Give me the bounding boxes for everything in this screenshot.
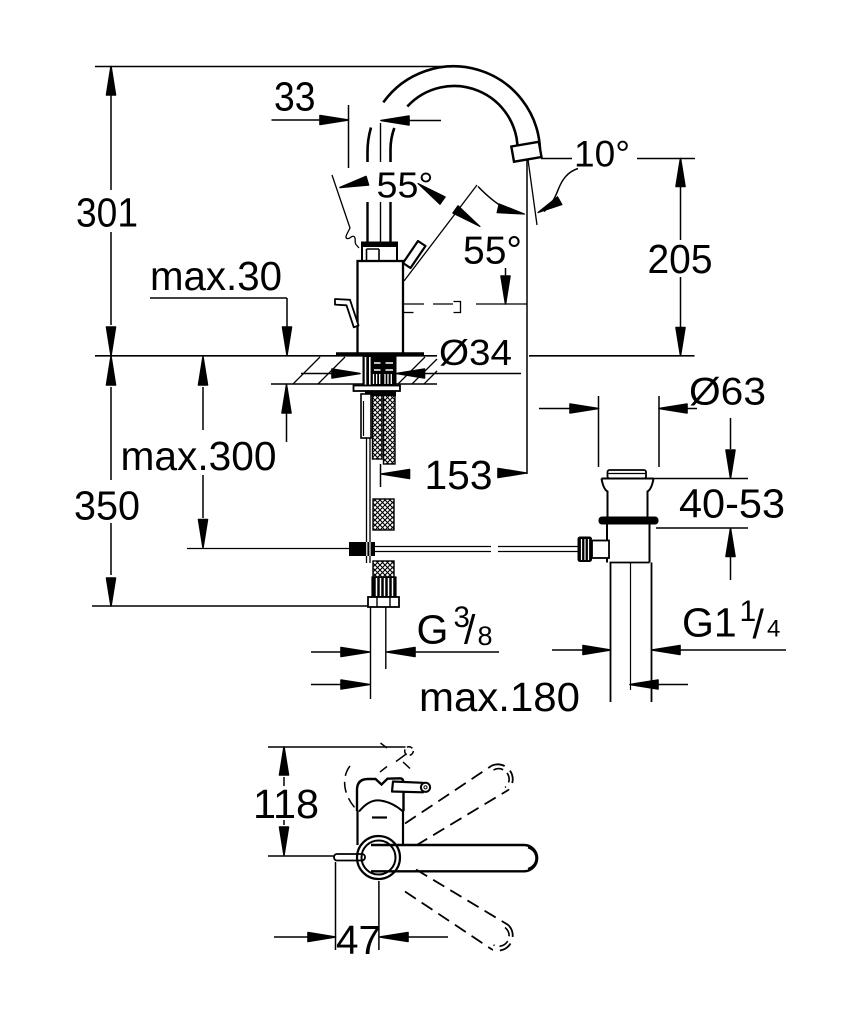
svg-text:4: 4: [767, 616, 780, 643]
svg-text:55°: 55°: [463, 230, 522, 273]
svg-text:205: 205: [648, 236, 713, 282]
svg-text:max.300: max.300: [121, 433, 277, 479]
svg-text:G: G: [417, 607, 449, 653]
svg-text:10°: 10°: [574, 134, 630, 175]
svg-text:/: /: [753, 601, 765, 647]
svg-text:118: 118: [253, 781, 319, 827]
svg-text:55°: 55°: [377, 165, 434, 206]
svg-text:153: 153: [425, 452, 493, 498]
svg-text:/: /: [464, 607, 476, 653]
svg-text:8: 8: [478, 621, 493, 651]
svg-text:Ø34: Ø34: [439, 332, 512, 373]
svg-text:47: 47: [336, 917, 381, 963]
svg-text:Ø63: Ø63: [689, 371, 766, 414]
svg-text:301: 301: [76, 190, 138, 236]
svg-text:40-53: 40-53: [679, 481, 785, 527]
svg-text:max.180: max.180: [419, 674, 580, 720]
svg-text:max.30: max.30: [150, 253, 282, 299]
svg-text:350: 350: [74, 483, 140, 529]
svg-text:G1: G1: [682, 600, 737, 646]
svg-text:33: 33: [274, 74, 316, 120]
